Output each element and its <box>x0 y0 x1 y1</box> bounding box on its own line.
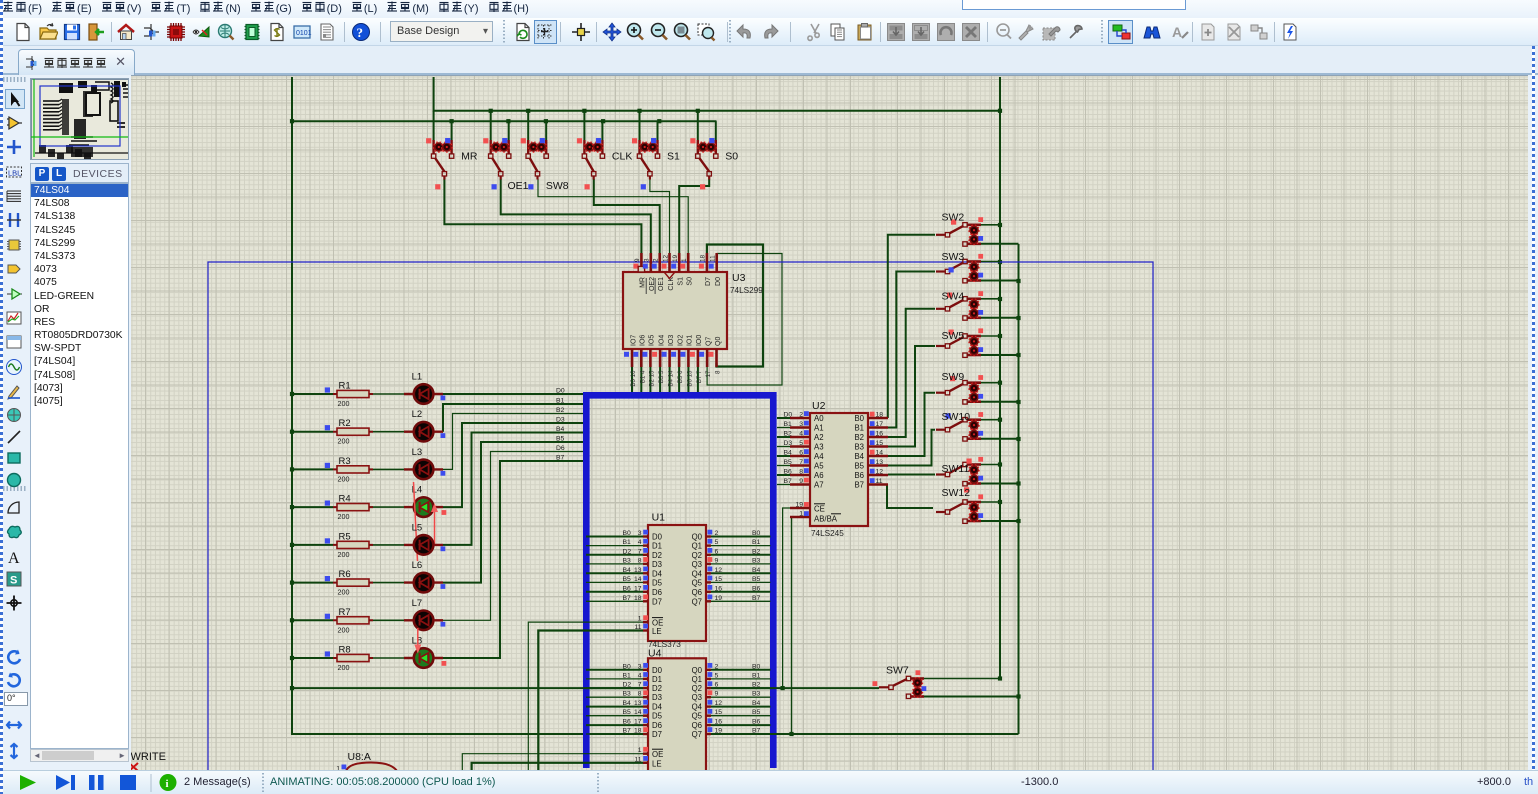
U4 pin Q7 (pin 19) <box>692 727 761 739</box>
U1 pin D3 (pin 8) <box>623 557 662 569</box>
svg-text:SW5: SW5 <box>942 330 965 342</box>
U1 pin Q3 (pin 9) <box>692 557 761 569</box>
wire U1.Q1 to bus <box>711 545 771 547</box>
wire SW2 pole to U2 <box>888 235 935 418</box>
wire MR switch to U3 pin MR <box>444 179 641 253</box>
svg-text:200: 200 <box>338 512 350 521</box>
svg-text:B2: B2 <box>854 433 864 442</box>
svg-text:B7: B7 <box>623 595 632 602</box>
svg-text:D3: D3 <box>652 693 662 702</box>
svg-text:LBL: LBL <box>8 168 21 177</box>
U4 pin Q3 (pin 9) <box>692 690 761 702</box>
svg-text:D6: D6 <box>556 445 565 452</box>
svg-text:B5: B5 <box>784 459 793 466</box>
svg-text:4: 4 <box>638 539 642 546</box>
svg-text:11: 11 <box>710 255 717 262</box>
wire SW2 upper contact to rail <box>981 224 1000 226</box>
svg-text:B1: B1 <box>854 424 864 433</box>
wire SW9 lower contact to rail <box>981 401 1019 403</box>
svg-text:B7 7: B7 7 <box>696 370 703 383</box>
wire bus to U4.D4 <box>586 706 643 708</box>
wire U1.Q7 to bus <box>711 600 771 602</box>
svg-text:L1: L1 <box>412 372 423 383</box>
wire bus to U4.D7 <box>586 733 643 735</box>
wire left contact drop switch4 <box>583 111 585 140</box>
svg-text:200: 200 <box>338 625 350 634</box>
wire U1.Q3 to bus <box>711 563 771 565</box>
switch SW2 (SPDT) <box>936 212 983 247</box>
wire bus to U2.A7 <box>777 484 790 486</box>
wire right contact drop switch6 <box>715 121 717 140</box>
svg-text:18: 18 <box>876 412 884 419</box>
svg-text:7: 7 <box>799 459 803 466</box>
wire bus to U1.D3 <box>586 563 643 565</box>
svg-text:D5: D5 <box>652 712 663 721</box>
wire bus to U2.A1 <box>777 427 790 429</box>
wire LED L2 to bus entry <box>443 404 583 432</box>
U4 pin Q0 (pin 2) <box>692 663 761 675</box>
switch SW9 (SPDT) <box>936 371 983 404</box>
svg-text:11: 11 <box>876 478 883 485</box>
U2 pin B2 (pin 16) <box>854 431 888 443</box>
svg-text:D0: D0 <box>715 277 722 286</box>
wire SW3 lower contact to rail <box>981 280 1019 282</box>
svg-text:7: 7 <box>638 548 642 555</box>
switch SW4 (SPDT) <box>936 291 983 321</box>
wire bus to U1.D2 <box>586 554 643 556</box>
svg-text:B1 4: B1 4 <box>639 370 646 383</box>
switch S0 (SPDT) <box>690 138 738 189</box>
wire U4.Q3 to bus <box>711 696 771 698</box>
U1 pin Q7 (pin 19) <box>692 595 761 607</box>
U3 pin IO5 (bottom, pin 15) <box>642 335 655 387</box>
svg-text:S: S <box>10 575 17 587</box>
LED L1 <box>404 372 445 404</box>
wire bus to U2.A4 <box>777 455 790 457</box>
switch SW5 (SPDT) <box>936 328 983 357</box>
wire U1.LE control from below <box>538 631 643 772</box>
svg-text:1: 1 <box>681 258 688 262</box>
U3 pin MR (top, pin 9) <box>633 253 646 288</box>
svg-text:D0: D0 <box>784 412 793 419</box>
wire U4.OE control from below <box>462 754 643 771</box>
svg-text:Q7: Q7 <box>705 337 712 346</box>
resistor R8 <box>325 645 373 673</box>
svg-text:18: 18 <box>634 728 642 735</box>
wire bus to U1.D6 <box>586 591 643 593</box>
wire SW12 upper contact to rail <box>981 501 1000 503</box>
wire SW3 pole to U2 <box>888 272 935 428</box>
svg-text:Q4: Q4 <box>692 703 703 712</box>
svg-text:3: 3 <box>644 258 651 262</box>
wire SW10 pole to U2 <box>888 430 935 466</box>
svg-text:D1: D1 <box>652 675 662 684</box>
U2 pin B5 (pin 13) <box>854 459 888 471</box>
svg-text:18: 18 <box>700 254 707 262</box>
svg-text:D0: D0 <box>556 388 565 395</box>
svg-text:B3 5: B3 5 <box>658 370 665 383</box>
wire bus to U1.D7 <box>586 600 643 602</box>
svg-text:L3: L3 <box>412 447 423 458</box>
wire U3 IO5 to bus <box>649 367 651 393</box>
svg-text:13: 13 <box>634 567 642 574</box>
wire U4.Q5 to bus <box>711 715 771 717</box>
wire SW9 upper contact to rail <box>981 382 1000 384</box>
U2 pin A7 (pin 9) <box>784 478 824 490</box>
wire left contact drop switch3 <box>527 111 529 140</box>
svg-text:D5: D5 <box>652 578 663 587</box>
svg-text:3: 3 <box>638 663 642 670</box>
gate U8:A (partially visible) <box>336 751 397 773</box>
wire bus to U2.A5 <box>777 465 790 467</box>
U3 pin IO7 (bottom, pin 16) <box>624 335 637 387</box>
svg-text:Q5: Q5 <box>692 712 703 721</box>
U3 pin IO3 (bottom, pin 14) <box>662 335 675 387</box>
wire bus to U1.D5 <box>586 581 643 583</box>
wire U3 IO2 to bus <box>678 367 680 393</box>
IC U1 74LS373 body <box>648 512 706 660</box>
svg-text:B6 13: B6 13 <box>686 370 693 387</box>
U3 pin OE1 (top, pin 2) <box>652 253 665 294</box>
svg-text:A: A <box>8 550 20 566</box>
wire LED L8 to bus entry <box>443 461 583 658</box>
svg-text:B4: B4 <box>623 567 632 574</box>
svg-text:D3: D3 <box>556 417 565 424</box>
U4 pin D7 (pin 18) <box>623 727 662 739</box>
U3 pin IO4 (bottom, pin 5) <box>652 335 665 384</box>
svg-text:7: 7 <box>638 682 642 689</box>
U1 pin Q2 (pin 6) <box>692 548 761 560</box>
U1 pin Q4 (pin 12) <box>692 567 761 579</box>
resistor R4 <box>325 494 373 521</box>
U4 pin D6 (pin 17) <box>623 718 662 730</box>
svg-text:8: 8 <box>715 370 722 374</box>
wire SW11 lower contact to rail <box>981 483 1019 485</box>
net label B1 <box>556 398 565 405</box>
switch S1 (SPDT) <box>632 138 680 189</box>
svg-text:L6: L6 <box>412 560 423 571</box>
svg-text:B7: B7 <box>854 481 864 490</box>
svg-text:17: 17 <box>634 585 642 592</box>
wire rail to R6 <box>292 582 333 584</box>
svg-text:SW4: SW4 <box>942 291 965 303</box>
svg-text:B5: B5 <box>623 709 632 716</box>
svg-text:CLK: CLK <box>612 151 632 163</box>
wire bus to U1.D4 <box>586 572 643 574</box>
U2 pin B6 (pin 12) <box>854 469 888 481</box>
svg-text:B4 14: B4 14 <box>668 370 675 387</box>
wire bus to U2.A2 <box>777 436 790 438</box>
U3 pin Q7 (bottom, pin 17) <box>699 337 712 378</box>
svg-text:B4: B4 <box>556 426 565 433</box>
svg-text:Q7: Q7 <box>692 597 702 606</box>
selection rectangle (blue) <box>208 262 1153 771</box>
svg-text:B1: B1 <box>623 539 632 546</box>
svg-text:D2: D2 <box>623 548 632 555</box>
U3 pin IO2 (bottom, pin 6) <box>671 335 684 384</box>
U2 pin B4 (pin 14) <box>854 450 888 462</box>
svg-text:B5: B5 <box>854 462 864 471</box>
svg-text:D2: D2 <box>652 551 662 560</box>
svg-text:B3: B3 <box>854 443 864 452</box>
U2 pin B0 (pin 18) <box>854 412 888 424</box>
svg-text:S0: S0 <box>725 151 738 163</box>
wire rail to R2 <box>292 431 333 433</box>
U4 pin Q2 (pin 6) <box>692 681 761 693</box>
svg-text:6: 6 <box>799 450 803 457</box>
svg-text:200: 200 <box>338 550 350 559</box>
wire U4.Q7 to right rail <box>711 732 1019 736</box>
wire SW11 pole to U2 <box>888 474 935 476</box>
svg-text:D2: D2 <box>652 684 662 693</box>
U3 pin D0 (top, pin 11) <box>709 253 722 286</box>
svg-text:9: 9 <box>634 258 641 262</box>
IC U3 74LS299 body <box>623 272 763 349</box>
U2 pin B1 (pin 17) <box>854 421 888 433</box>
svg-text:B0 16: B0 16 <box>630 370 637 387</box>
wire right contact drop switch2 <box>508 121 510 140</box>
U4 pin Q4 (pin 12) <box>692 700 761 712</box>
svg-text:200: 200 <box>338 663 350 672</box>
wire U4.Q1 to bus <box>711 678 771 680</box>
svg-text:D4: D4 <box>652 569 663 578</box>
LED L3 <box>404 447 445 479</box>
svg-text:15: 15 <box>876 440 884 447</box>
U1 pin D6 (pin 17) <box>623 585 662 597</box>
svg-text:B7: B7 <box>784 478 793 485</box>
switch SW11 (SPDT) <box>936 457 983 486</box>
svg-text:D2: D2 <box>623 682 632 689</box>
svg-text:Q6: Q6 <box>692 588 702 597</box>
svg-text:200: 200 <box>338 588 350 597</box>
wire SW2 lower contact to rail <box>981 243 1019 245</box>
svg-text:Q0: Q0 <box>692 533 703 542</box>
svg-text:D3: D3 <box>784 440 793 447</box>
U2 pin B7 (pin 11) <box>854 478 888 490</box>
wire right contact drop switch4 <box>601 121 603 140</box>
wire right contact drop switch1 <box>451 121 453 140</box>
svg-text:8: 8 <box>638 557 642 564</box>
U1 pin Q0 (pin 2) <box>692 530 761 542</box>
wire rail to R8 <box>292 657 333 659</box>
switch SW8 (SPDT) <box>521 138 549 189</box>
net label D0 <box>556 388 565 395</box>
wire U1.Q5 to bus <box>711 581 771 583</box>
U1 pin LE (pin 11) <box>634 624 661 636</box>
wire U4.Q6 to bus <box>711 724 771 726</box>
wire SW12 lower contact to rail <box>981 520 1019 522</box>
wire U3 IO3 to bus <box>669 367 671 393</box>
wire bus to U4.D2 <box>586 687 643 689</box>
U1 pin D2 (pin 7) <box>623 548 662 560</box>
svg-text:SW10: SW10 <box>942 411 971 423</box>
svg-text:IO3: IO3 <box>668 335 675 346</box>
svg-text:B5: B5 <box>556 436 565 443</box>
net label B4 <box>556 426 565 433</box>
wire left contact drop switch1 <box>433 111 435 140</box>
wire bus to U2.A0 <box>777 417 790 419</box>
wire LED L4 to bus entry <box>443 423 583 507</box>
svg-text:SW12: SW12 <box>942 487 971 499</box>
switch CLK (SPDT) <box>577 138 632 189</box>
svg-text:U2: U2 <box>812 400 826 412</box>
U4 pin D2 (pin 7) <box>623 681 662 693</box>
svg-text:2: 2 <box>799 412 803 419</box>
wire SW10 lower contact to rail <box>981 438 1019 440</box>
svg-text:3: 3 <box>799 421 803 428</box>
svg-text:OE1: OE1 <box>658 277 665 291</box>
wire bus to U4.D5 <box>586 715 643 717</box>
svg-text:CE: CE <box>814 505 825 514</box>
svg-text:12: 12 <box>662 254 669 262</box>
svg-text:16: 16 <box>876 431 884 438</box>
U2 pin AB/BA (pin 1) <box>790 511 841 524</box>
wire right contact drop switch5 <box>657 121 659 140</box>
svg-text:A4: A4 <box>814 452 824 461</box>
U4 pin D0 (pin 3) <box>623 663 663 675</box>
wire bus to U1.D1 <box>586 545 643 547</box>
svg-text:D1: D1 <box>652 542 662 551</box>
wire U4.D2 from left rail <box>290 686 643 690</box>
LED L6 <box>404 560 445 592</box>
wire top horizontal net B (right contacts row) <box>292 119 717 123</box>
svg-text:4: 4 <box>799 431 803 438</box>
svg-text:MR: MR <box>640 277 647 288</box>
svg-text:D0: D0 <box>652 533 663 542</box>
switch SW3 (SPDT) <box>936 251 983 283</box>
U3 pin S1 (top, pin 19) <box>671 253 684 286</box>
wire rail to R7 <box>292 619 333 621</box>
wire U3 feedback loop Q7 to D0 <box>707 253 782 385</box>
net label B7 <box>556 455 565 462</box>
U4 pin D4 (pin 13) <box>623 700 663 712</box>
U3 pin Q0 (bottom, pin 8) <box>709 337 722 374</box>
svg-text:Q0: Q0 <box>715 337 722 346</box>
net label B5 <box>556 436 565 443</box>
U3 pin S0 (top, pin 1) <box>680 253 693 286</box>
wire main left vertical rail to resistors and U4.D7 <box>290 77 643 734</box>
svg-text:200: 200 <box>338 399 350 408</box>
svg-text:SW8: SW8 <box>546 180 569 192</box>
U1 pin D0 (pin 3) <box>623 530 663 542</box>
svg-text:19: 19 <box>672 254 679 262</box>
svg-text:14: 14 <box>634 576 642 583</box>
svg-text:A5: A5 <box>814 462 824 471</box>
svg-text:A6: A6 <box>814 471 824 480</box>
wire U3 IO4 to bus <box>659 367 661 393</box>
wire right vertical rail x=1018.5 <box>1016 244 1020 734</box>
wire SW4 upper contact to rail <box>981 298 1000 300</box>
U4 pin D3 (pin 8) <box>623 690 662 702</box>
svg-text:17: 17 <box>634 719 642 726</box>
svg-text:U3: U3 <box>732 272 746 284</box>
wire bus to U2.A6 <box>777 474 790 476</box>
wire R5 to L5 <box>369 544 404 546</box>
svg-text:B4: B4 <box>784 450 793 457</box>
wire LED L6 to bus entry <box>443 442 583 583</box>
wire bus to U2.A3 <box>777 446 790 448</box>
switch SW10 (SPDT) <box>936 411 983 441</box>
LED L5 <box>404 522 445 554</box>
resistor R7 <box>325 607 373 635</box>
wire SW10 upper contact to rail <box>981 419 1000 421</box>
wire rail to R3 <box>292 468 333 470</box>
svg-text:IO4: IO4 <box>658 335 665 346</box>
svg-text:R4: R4 <box>339 494 351 505</box>
label WRITE <box>131 751 166 763</box>
svg-text:14: 14 <box>634 709 642 716</box>
wire SW5 pole to U2 <box>888 346 935 447</box>
switch SW12 (SPDT) <box>936 487 983 523</box>
svg-text:3: 3 <box>638 530 642 537</box>
svg-text:SW9: SW9 <box>942 371 965 383</box>
U2 pin B3 (pin 15) <box>854 440 888 452</box>
svg-text:Q1: Q1 <box>692 675 702 684</box>
svg-text:R5: R5 <box>339 531 351 542</box>
wire U3 IO7 to bus <box>631 367 633 393</box>
no-connect marker (clipped) <box>129 763 138 771</box>
wire bus to U4.D3 <box>586 696 643 698</box>
svg-text:B0: B0 <box>623 530 632 537</box>
svg-text:IO6: IO6 <box>640 335 647 346</box>
wire R3 to L3 <box>369 468 404 470</box>
U2 pin A3 (pin 5) <box>784 440 824 452</box>
svg-text:Q7: Q7 <box>692 730 702 739</box>
wire U1.OE control from below <box>528 622 643 771</box>
svg-text:B6: B6 <box>784 469 793 476</box>
svg-text:13: 13 <box>634 700 642 707</box>
svg-text:Q3: Q3 <box>692 560 702 569</box>
svg-text:WRITE: WRITE <box>131 751 166 763</box>
wire LED L1 to bus entry <box>443 393 583 395</box>
svg-text:Q2: Q2 <box>692 551 702 560</box>
svg-text:OE1: OE1 <box>508 180 529 192</box>
U1 pin D7 (pin 18) <box>623 595 662 607</box>
U3 pin IO0 (bottom, pin 7) <box>690 335 703 384</box>
svg-text:17: 17 <box>876 421 884 428</box>
svg-text:A: A <box>1172 24 1182 40</box>
wire SW9 pole to U2 <box>888 393 935 456</box>
svg-text:200: 200 <box>338 437 350 446</box>
svg-text:B1: B1 <box>556 398 565 405</box>
svg-text:D3: D3 <box>652 560 662 569</box>
U3 pin OE2 (top, pin 3) <box>643 253 656 294</box>
svg-text:Q1: Q1 <box>692 542 702 551</box>
U2 pin A4 (pin 6) <box>784 449 825 461</box>
U1 pin Q1 (pin 5) <box>692 539 761 551</box>
svg-text:B5 6: B5 6 <box>677 370 684 383</box>
svg-text:B1: B1 <box>784 421 793 428</box>
svg-text:?: ? <box>357 25 364 40</box>
svg-text:IO7: IO7 <box>630 335 637 346</box>
svg-text:B2 15: B2 15 <box>648 370 655 387</box>
U1 pin D1 (pin 4) <box>623 539 662 551</box>
wire left contact drop switch6 <box>697 111 699 140</box>
svg-text:U1: U1 <box>652 512 666 524</box>
svg-text:14: 14 <box>876 450 884 457</box>
svg-text:2: 2 <box>653 258 660 262</box>
wire S0 switch to U3 pin S1 <box>679 179 709 253</box>
svg-text:D0: D0 <box>652 666 663 675</box>
svg-text:SW11: SW11 <box>942 463 970 475</box>
U4 pin D1 (pin 4) <box>623 672 662 684</box>
wire right vertical rail x=1000 <box>998 77 1002 681</box>
wire rail to R5 <box>292 544 333 546</box>
U3 pin D7 (top, pin 18) <box>699 253 712 286</box>
svg-text:8: 8 <box>638 691 642 698</box>
wire left contact drop switch2 <box>490 111 492 140</box>
wire U4.Q7 to bus <box>711 733 771 735</box>
